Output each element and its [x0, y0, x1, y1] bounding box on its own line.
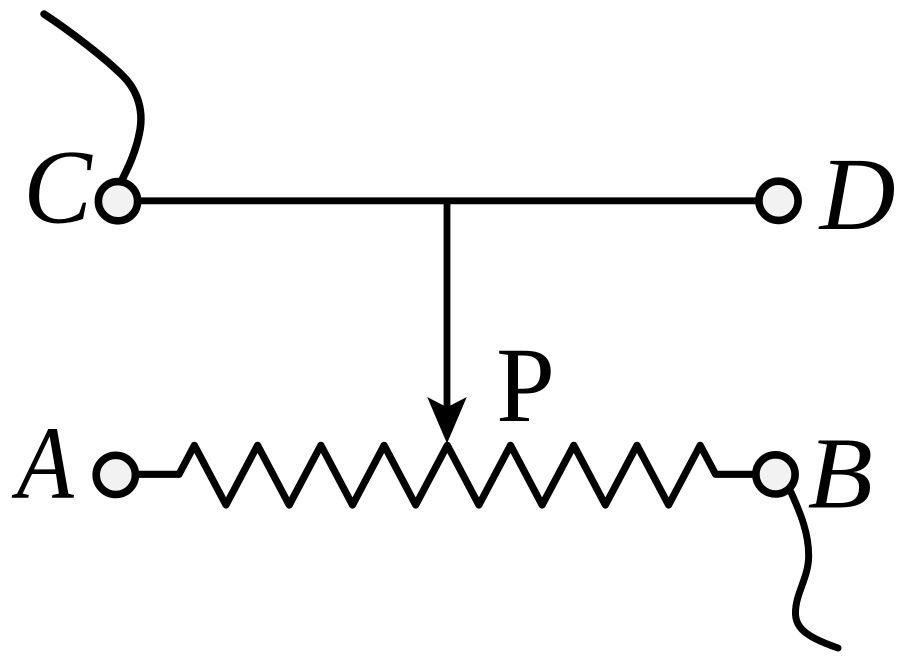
svg-text:B: B [808, 417, 873, 530]
svg-text:C: C [23, 128, 93, 246]
svg-text:P: P [496, 326, 555, 445]
svg-text:A: A [11, 406, 74, 520]
svg-text:D: D [818, 137, 896, 252]
